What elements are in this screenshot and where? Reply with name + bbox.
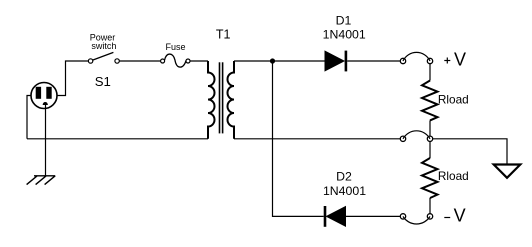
svg-text:D1: D1 [336,14,352,28]
svg-text:Fuse: Fuse [165,42,185,52]
svg-text:Rload: Rload [438,169,469,183]
svg-text:S1: S1 [95,74,111,89]
svg-text:V: V [454,49,466,69]
svg-text:1N4001: 1N4001 [323,28,366,42]
svg-text:V: V [454,205,466,225]
svg-text:D2: D2 [336,169,352,183]
svg-text:1N4001: 1N4001 [323,184,366,198]
svg-text:switch: switch [91,41,116,51]
svg-text:Rload: Rload [438,93,469,107]
svg-text:T1: T1 [216,28,231,42]
